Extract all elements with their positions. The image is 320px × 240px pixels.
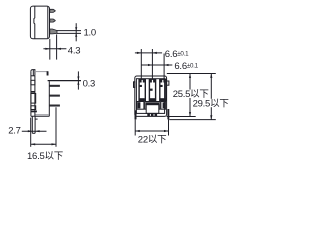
right foot wing — [167, 109, 169, 119]
left box 2 — [31, 94, 36, 104]
dim 4.3 line — [43, 48, 66, 50]
body outline — [30, 6, 49, 39]
right pin 2 — [49, 95, 60, 97]
slot column 1 — [139, 79, 145, 100]
arrow down to lead top — [75, 27, 77, 30]
top tab — [31, 70, 35, 76]
pin 3 tab — [50, 29, 57, 34]
dim 6.6 extension line C — [163, 54, 165, 80]
svg-text:29.5以下: 29.5以下 — [193, 98, 229, 109]
left bar 1 — [31, 91, 35, 93]
down blade left line — [31, 116, 33, 133]
body right edge — [48, 81, 50, 116]
bottom squares — [147, 114, 150, 117]
svg-text:16.5以下: 16.5以下 — [27, 151, 63, 162]
svg-text:1.0: 1.0 — [84, 28, 96, 39]
bottom edge — [31, 115, 49, 117]
dim 6.6 extension line B — [151, 49, 153, 79]
text underlays — [172, 90, 229, 108]
down blade right line — [34, 116, 36, 133]
inner outline — [136, 79, 164, 114]
dim 22 extension right — [168, 119, 170, 135]
slot column 3 — [160, 79, 166, 100]
svg-text:4.3: 4.3 — [68, 46, 80, 57]
inner vertical line left with jog — [33, 6, 36, 38]
svg-text:2.7: 2.7 — [8, 126, 20, 137]
bottom row left slot — [137, 102, 144, 110]
blade hook — [35, 118, 38, 120]
strip inner vertical — [34, 76, 36, 117]
outer outline — [135, 76, 167, 116]
dim 16.5 line — [31, 143, 56, 145]
pin 2 — [50, 19, 55, 22]
bottom wide slot — [145, 102, 160, 110]
dim 1.0 vertical line — [75, 23, 77, 41]
dim 16.5 extension line right — [55, 107, 57, 147]
dim 25.5 vertical — [189, 74, 191, 117]
bottom center tab notch — [146, 105, 159, 114]
svg-text:0.3: 0.3 — [83, 78, 95, 89]
svg-text:22以下: 22以下 — [138, 135, 167, 146]
dim 22 line — [135, 130, 168, 132]
dim 0.3 vertical — [77, 71, 79, 89]
dim 22 extension left — [134, 119, 136, 135]
arrow up to lead bottom — [75, 33, 77, 36]
slot column 2 — [149, 79, 155, 100]
left edge — [30, 71, 32, 116]
pin 1 — [50, 9, 55, 12]
low ext line (29.5 bottom) — [169, 119, 216, 121]
right pin 1 — [49, 85, 60, 87]
mid ext line (25.5 bottom) — [167, 116, 196, 118]
dim 6.6 #1 line — [135, 52, 162, 54]
left foot wing — [135, 110, 137, 119]
inner vertical line right — [47, 7, 49, 39]
left box 1 — [31, 80, 35, 85]
dim 6.6 extension line A — [140, 49, 142, 79]
dim 4.3 extension line 2 — [56, 34, 58, 59]
strip top line — [31, 75, 35, 77]
dim 4.3 extension line 1 — [49, 39, 51, 60]
lead blade top line — [57, 30, 81, 32]
tab inner line — [32, 70, 34, 76]
left box 3 — [31, 106, 36, 110]
bottom right slot — [161, 102, 166, 110]
right pin 3 — [49, 105, 60, 107]
left bar 2 — [31, 111, 37, 113]
lead blade bottom line — [57, 32, 81, 34]
dim 2.7 line — [22, 130, 47, 132]
top gray shelf line — [35, 71, 48, 73]
lead 0.3 — [48, 80, 81, 82]
right latch stub — [167, 81, 169, 85]
down blade bottom — [32, 132, 35, 134]
step block at shelf end — [47, 71, 49, 75]
bottom gray shade line — [35, 114, 49, 116]
top ext line — [167, 73, 216, 75]
dim 16.5 extension line left — [30, 118, 32, 147]
left latch stub — [134, 82, 135, 88]
dim 6.6 #2 line — [141, 64, 172, 66]
dim 29.5 vertical — [210, 74, 212, 120]
